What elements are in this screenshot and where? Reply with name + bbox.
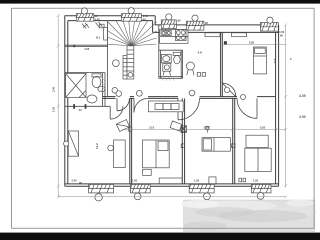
dim line right [284, 23, 287, 187]
svg-text:1.50: 1.50 [253, 179, 259, 183]
wall: bathroom1 top [65, 72, 105, 74]
wall: right exterior [276, 25, 279, 186]
window W5 [260, 23, 278, 32]
wardrobe middle room [205, 33, 220, 37]
window W4 [186, 21, 204, 30]
corridor door 3 [178, 98, 200, 120]
window W4 text [205, 21, 208, 25]
svg-text:2.40: 2.40 [95, 17, 101, 21]
wall: bedroom divider 3 [233, 98, 235, 183]
window B3 text [194, 179, 200, 183]
window B2 text [132, 179, 138, 183]
closet top-left room [104, 28, 108, 40]
svg-text:8.3: 8.3 [273, 58, 277, 63]
window B3 circle [204, 193, 211, 200]
bathroom2 sink [161, 54, 171, 62]
desk living room [108, 140, 125, 168]
bed bedroom4 headboard [246, 135, 268, 147]
corridor door 1 circle [112, 88, 118, 94]
wall: top-left exterior [65, 16, 155, 21]
dim line bottom [57, 195, 287, 198]
wall: top-left room bottom [65, 45, 108, 46]
door living room [110, 106, 123, 119]
window W3 circle [166, 14, 172, 20]
kitchen counter [160, 30, 188, 44]
marks top-left room [82, 22, 104, 29]
wall: bottom exterior [65, 184, 279, 186]
armchair living room [116, 120, 129, 132]
window W1 circle [81, 8, 87, 14]
bed right room [253, 47, 266, 74]
svg-text:2.05: 2.05 [85, 48, 90, 51]
svg-text:2.80: 2.80 [249, 41, 255, 45]
wall: bathroom2 bottom [159, 77, 183, 79]
table bedroom3 [209, 177, 216, 184]
window W4 circle [192, 15, 198, 21]
window B2 circle [134, 193, 141, 200]
svg-text:2.20: 2.20 [72, 179, 78, 183]
wall: kitchen-stair divider [159, 25, 161, 78]
sideboard corridor [148, 101, 183, 112]
bathroom1 toilet [92, 74, 101, 88]
window B4 [251, 184, 271, 193]
wall: left exterior [65, 16, 68, 187]
window W1 [76, 14, 94, 22]
dim line left [57, 14, 60, 197]
window B1 circle [95, 194, 102, 201]
window B3 [189, 184, 214, 193]
bathroom1 bidet [98, 86, 105, 92]
wall: bathroom2 top [159, 49, 183, 51]
dim line interior bedrooms [122, 128, 286, 131]
window B4 text [253, 179, 259, 183]
window W2 circle [128, 8, 134, 14]
right room door [222, 83, 236, 97]
bed bedroom4 [245, 148, 271, 171]
radiator bedroom2 wall dark [181, 126, 187, 133]
corridor door 2 circle [136, 90, 142, 96]
svg-text:3.15: 3.15 [149, 126, 155, 130]
wall: top-right exterior [153, 25, 279, 33]
bed bedroom2 [143, 140, 170, 168]
bathroom2 washing machine [163, 63, 171, 75]
svg-text:1.50: 1.50 [279, 30, 285, 34]
nightstand bedroom2 [143, 169, 152, 175]
svg-text:2.55: 2.55 [260, 126, 266, 130]
bathroom1 sink [87, 95, 97, 103]
dim text left [52, 86, 56, 112]
svg-text:4.6: 4.6 [198, 51, 203, 55]
stair fan [108, 21, 157, 46]
corridor door 4 circle [241, 95, 246, 100]
blurred title block [180, 200, 316, 232]
svg-text:1.50: 1.50 [132, 179, 138, 183]
wall: stairwell left [107, 21, 109, 97]
dim line interior right room [223, 43, 286, 46]
living room wall circle [64, 141, 69, 146]
window W1 text [95, 14, 101, 21]
bed bedroom3 [202, 138, 230, 152]
door hatch bathroom2 [161, 77, 174, 81]
svg-text:1.20: 1.20 [52, 106, 56, 112]
marks bedroom4 [239, 178, 246, 182]
top black bar [0, 0, 320, 4]
window B1 [89, 184, 114, 193]
svg-text:1.50: 1.50 [143, 14, 149, 18]
wall: bathroom2 right [181, 50, 182, 78]
dresser bedroom2 [159, 178, 182, 184]
svg-text:1.50: 1.50 [194, 179, 200, 183]
wall: bathroom1 bottom [65, 105, 110, 107]
boiler [186, 62, 205, 76]
corridor door 2 [134, 98, 148, 112]
bottom black bar [0, 233, 320, 240]
corridor door 4 [237, 98, 257, 118]
armchair bedroom2 [170, 121, 182, 131]
dim text bedrooms [149, 126, 266, 130]
svg-text:3.90: 3.90 [299, 115, 306, 119]
window W2 [121, 14, 141, 22]
window W2 text [143, 14, 149, 21]
corridor door 3 circle [189, 90, 195, 96]
wall: bedroom divider 2 [182, 98, 184, 183]
right room door circle [224, 87, 229, 92]
radiator marks [129, 127, 235, 148]
jamb mark right room wall [224, 41, 227, 44]
window B4 circle [257, 193, 264, 200]
wall: corridor [103, 97, 276, 99]
wardrobe living room [68, 131, 78, 156]
window B2 [130, 184, 150, 193]
corridor door 1 [117, 98, 129, 110]
dim text right outer [290, 57, 306, 119]
door jamb mark [73, 45, 75, 47]
wardrobe right room [232, 33, 247, 37]
window W3 [161, 20, 176, 29]
wall: top step [153, 16, 156, 33]
hatch bathroom1 wall [101, 77, 105, 94]
window W5 text [279, 30, 285, 37]
window W5 circle [267, 17, 273, 23]
wall: bedroom divider 1 [130, 98, 132, 183]
mark bedroom3 [206, 126, 209, 132]
window B1 text [72, 179, 83, 186]
table hall [112, 60, 119, 67]
svg-text:8.1: 8.1 [96, 36, 101, 40]
wall: bathroom1 right [103, 73, 105, 107]
svg-text:2.40: 2.40 [52, 86, 56, 92]
bathroom2 toilet [173, 52, 180, 63]
door jamb bathroom1 [73, 104, 86, 109]
bathroom1 shower [66, 74, 86, 98]
window W3 text [178, 19, 181, 23]
stair flight [123, 46, 134, 79]
svg-text:4.05: 4.05 [299, 94, 306, 98]
wall: right room left [221, 32, 223, 96]
svg-text:11.2: 11.2 [95, 143, 99, 149]
